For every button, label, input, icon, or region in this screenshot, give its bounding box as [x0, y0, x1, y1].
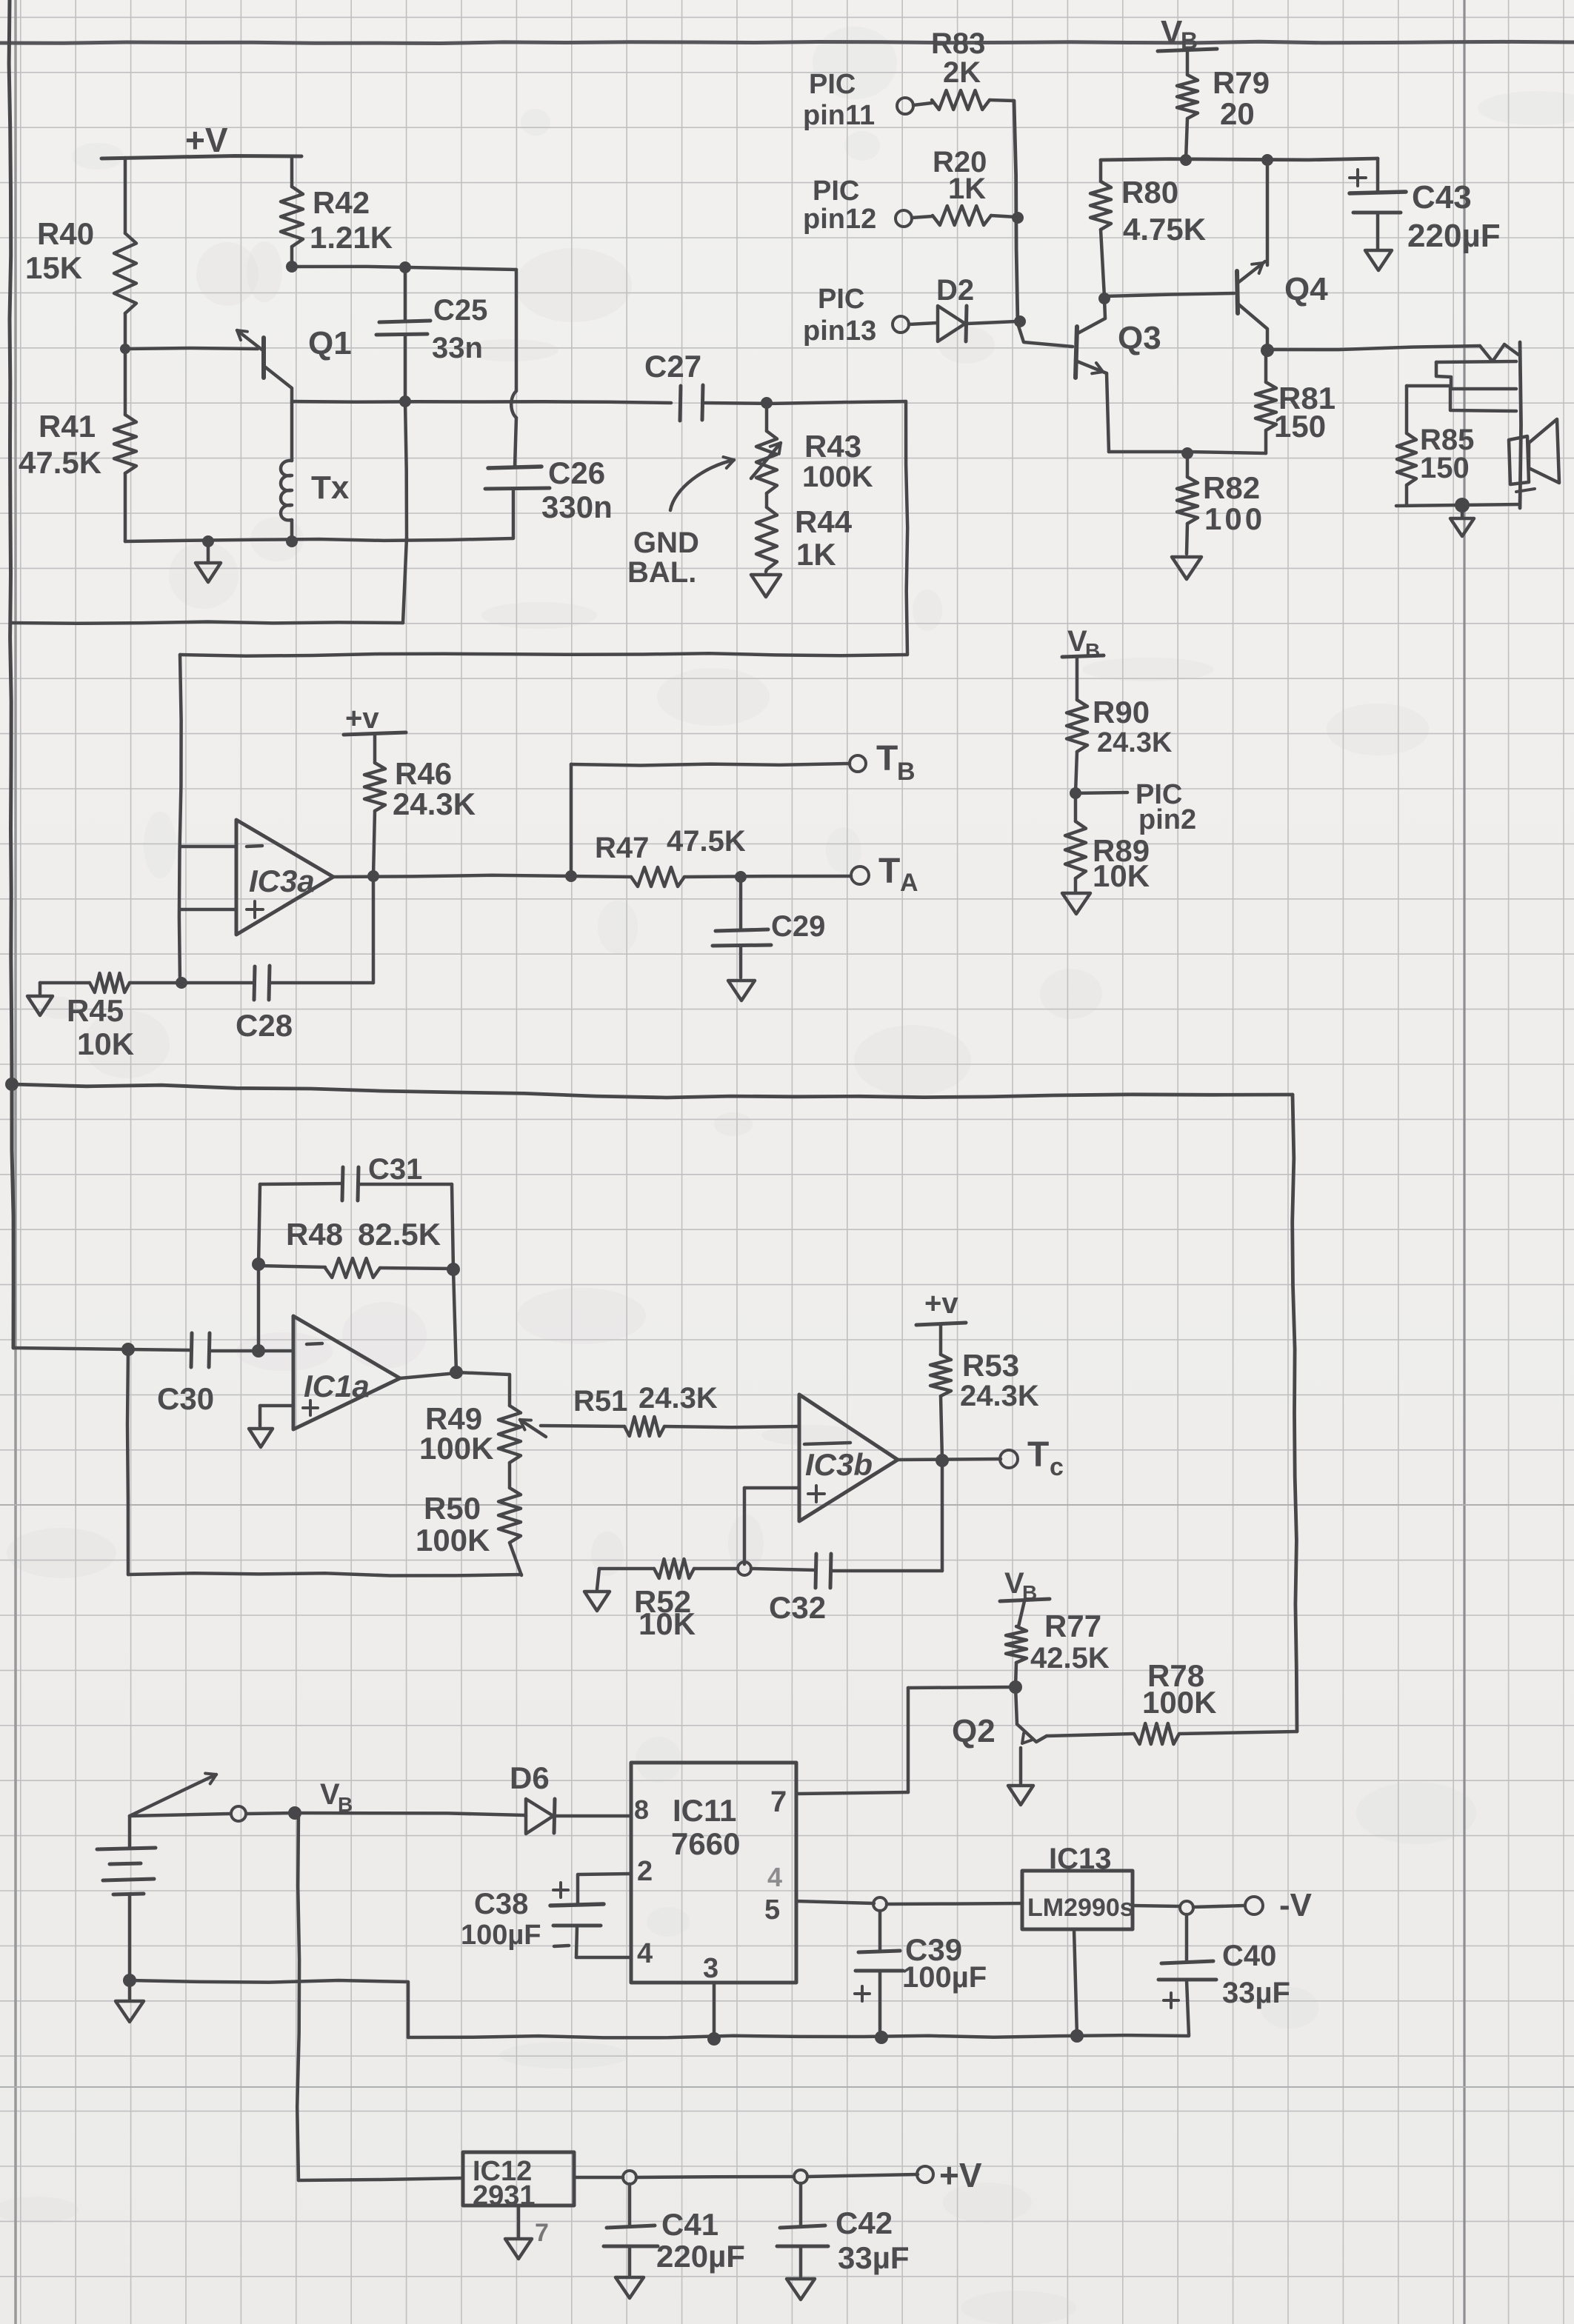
svg-text:R79: R79 [1213, 65, 1270, 100]
svg-text:100K: 100K [416, 1523, 490, 1557]
svg-text:R46: R46 [395, 756, 452, 791]
svg-text:150: 150 [1420, 452, 1470, 484]
svg-text:R51: R51 [573, 1385, 627, 1418]
svg-text:+V: +V [185, 121, 228, 159]
svg-text:+v: +v [345, 702, 379, 735]
svg-text:R77: R77 [1044, 1609, 1101, 1643]
svg-text:2: 2 [637, 1856, 653, 1887]
svg-text:10K: 10K [1093, 858, 1150, 893]
svg-text:100K: 100K [802, 461, 873, 493]
svg-text:+V: +V [939, 2156, 982, 2194]
svg-text:V: V [1004, 1567, 1024, 1600]
svg-text:R90: R90 [1093, 695, 1150, 729]
svg-text:100K: 100K [419, 1431, 493, 1466]
svg-text:220µF: 220µF [656, 2239, 745, 2274]
svg-text:R45: R45 [67, 993, 124, 1028]
svg-text:47.5K: 47.5K [19, 445, 101, 480]
svg-text:2K: 2K [943, 56, 981, 89]
svg-text:T: T [876, 739, 898, 778]
svg-text:82.5K: 82.5K [358, 1217, 441, 1252]
svg-text:220µF: 220µF [1407, 218, 1501, 254]
svg-text:PIC: PIC [809, 69, 856, 100]
svg-text:pin13: pin13 [803, 315, 876, 347]
svg-text:C29: C29 [771, 910, 825, 943]
svg-text:Tx: Tx [311, 470, 350, 506]
svg-text:100: 100 [1204, 501, 1265, 536]
svg-text:Q2: Q2 [952, 1713, 996, 1749]
svg-text:R82: R82 [1203, 470, 1260, 505]
svg-text:pin12: pin12 [803, 204, 876, 235]
svg-text:PIC: PIC [813, 176, 859, 207]
svg-text:D2: D2 [936, 274, 974, 307]
svg-text:20: 20 [1220, 96, 1255, 131]
svg-text:3: 3 [703, 1953, 718, 1984]
svg-text:24.3K: 24.3K [638, 1382, 718, 1415]
svg-text:R43: R43 [804, 429, 861, 464]
svg-text:LM2990s: LM2990s [1027, 1894, 1134, 1922]
svg-text:4: 4 [767, 1862, 782, 1892]
svg-text:1.21K: 1.21K [310, 220, 393, 255]
svg-text:42.5K: 42.5K [1030, 1642, 1110, 1674]
svg-text:R41: R41 [39, 409, 96, 444]
svg-text:R42: R42 [313, 185, 370, 220]
svg-text:1K: 1K [948, 173, 986, 205]
svg-text:7660: 7660 [671, 1826, 740, 1861]
svg-text:7: 7 [770, 1786, 787, 1818]
svg-text:C41: C41 [661, 2207, 718, 2242]
svg-text:-V: -V [1279, 1887, 1313, 1923]
svg-text:R40: R40 [37, 216, 94, 251]
svg-text:100µF: 100µF [902, 1961, 987, 1994]
svg-text:R48: R48 [286, 1217, 343, 1252]
svg-text:Q1: Q1 [308, 325, 352, 361]
svg-text:1K: 1K [796, 537, 836, 572]
svg-text:33n: 33n [432, 332, 483, 364]
svg-text:B: B [897, 758, 916, 786]
svg-text:47.5K: 47.5K [667, 825, 746, 858]
svg-text:C42: C42 [836, 2206, 893, 2240]
svg-text:C38: C38 [474, 1888, 528, 1920]
svg-text:C25: C25 [433, 294, 487, 327]
svg-text:IC3a: IC3a [249, 864, 315, 898]
svg-text:A: A [900, 869, 918, 897]
svg-text:33µF: 33µF [1222, 1977, 1290, 2009]
svg-text:10K: 10K [638, 1606, 696, 1641]
svg-text:15K: 15K [25, 250, 82, 285]
svg-text:V: V [1067, 625, 1087, 658]
svg-text:R80: R80 [1121, 175, 1178, 210]
svg-text:T: T [1027, 1435, 1049, 1475]
svg-text:C26: C26 [548, 455, 605, 490]
svg-text:V: V [1161, 14, 1183, 50]
svg-text:4: 4 [637, 1938, 653, 1969]
svg-text:C31: C31 [368, 1153, 422, 1186]
svg-text:Q4: Q4 [1284, 271, 1328, 307]
svg-text:100K: 100K [1142, 1685, 1216, 1720]
svg-text:R83: R83 [931, 27, 985, 60]
svg-text:T: T [878, 852, 900, 891]
svg-text:IC3b: IC3b [805, 1447, 873, 1482]
svg-text:24.3K: 24.3K [960, 1380, 1039, 1412]
svg-text:2931: 2931 [473, 2180, 536, 2211]
svg-text:IC11: IC11 [673, 1793, 736, 1828]
svg-text:8: 8 [634, 1794, 649, 1825]
svg-text:C43: C43 [1412, 179, 1472, 216]
svg-text:330n: 330n [541, 490, 613, 524]
svg-text:R53: R53 [962, 1348, 1019, 1383]
svg-text:C40: C40 [1222, 1940, 1276, 1972]
svg-text:R47: R47 [595, 832, 649, 864]
svg-text:7: 7 [535, 2219, 549, 2247]
svg-text:IC1a: IC1a [304, 1369, 370, 1403]
svg-text:150: 150 [1274, 409, 1326, 444]
svg-text:24.3K: 24.3K [393, 787, 476, 821]
svg-text:GND: GND [633, 527, 699, 559]
svg-text:C32: C32 [769, 1590, 826, 1625]
svg-text:10K: 10K [77, 1026, 134, 1061]
svg-text:BAL.: BAL. [627, 556, 696, 589]
svg-text:PIC: PIC [818, 284, 864, 315]
svg-text:C28: C28 [236, 1008, 293, 1043]
svg-text:R44: R44 [795, 504, 853, 539]
svg-text:D6: D6 [510, 1760, 550, 1795]
svg-text:24.3K: 24.3K [1097, 727, 1173, 758]
svg-text:pin11: pin11 [803, 100, 875, 131]
svg-text:R50: R50 [424, 1491, 481, 1526]
svg-text:c: c [1050, 1453, 1064, 1481]
svg-text:4.75K: 4.75K [1123, 212, 1206, 247]
svg-text:33µF: 33µF [838, 2240, 910, 2275]
svg-text:C27: C27 [644, 349, 701, 384]
svg-text:B: B [1085, 639, 1100, 662]
svg-text:Q3: Q3 [1118, 320, 1161, 356]
svg-text:pin2: pin2 [1138, 804, 1196, 835]
svg-text:+v: +v [924, 1287, 958, 1320]
svg-text:5: 5 [764, 1894, 780, 1926]
svg-text:100µF: 100µF [461, 1920, 541, 1951]
svg-text:V: V [320, 1778, 340, 1811]
svg-text:C30: C30 [157, 1381, 214, 1416]
